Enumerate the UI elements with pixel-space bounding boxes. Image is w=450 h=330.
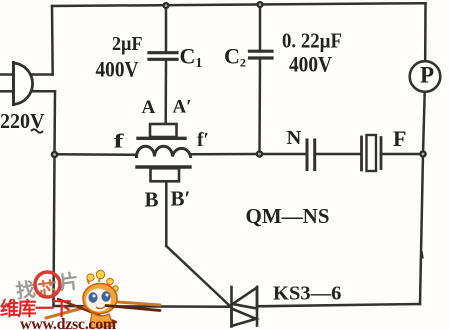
wire mid rail (C2 node to capacitor N) [260,153,307,156]
svg-text:220V: 220V [0,109,45,133]
svg-text:A: A [142,97,156,118]
wire right vertical lower (bottom corner up to mid node) [420,154,423,304]
capacitor C1 bottom lead (to node A) [164,60,167,124]
wire left vertical (plug neutral down to mid rail node) [53,91,56,154]
svg-text:0. 22µF: 0. 22µF [282,29,342,53]
svg-text:400V: 400V [96,57,139,82]
wire right vertical upper (meter P up to top rail) [424,3,427,61]
capacitor C1 [149,53,177,60]
wire bottom rail left segment [54,305,232,308]
wire bottom rail right segment [257,304,420,306]
wire gate diagonal (B lead to triac gate) [166,246,230,307]
svg-text:f: f [114,131,124,153]
junction node (C2 / mid rail) [256,150,264,158]
wire (igniter F to right vertical node) [382,153,423,156]
junction node (left vertical / mid rail) [51,151,59,159]
wire mid rail f'-side (sensor coil to C2 node) [190,153,260,156]
triac V (KS3-6) [232,287,258,327]
wire top rail [52,3,426,6]
svg-text:KS3—6: KS3—6 [273,283,341,305]
watermark text zhao xin pian [14,270,80,306]
svg-text:QM—NS: QM—NS [246,204,330,228]
svg-text:2µF: 2µF [112,34,143,55]
svg-text:B′: B′ [171,187,191,211]
svg-text:www.dzsc.com: www.dzsc.com [20,316,117,330]
arrow on right vertical wire [421,251,423,259]
tilde under 220V [31,129,43,132]
wire mid rail f-side (left node to sensor coil) [55,153,137,156]
watermark [0,270,160,330]
wire plug lower lead [32,90,55,93]
svg-text:N: N [287,127,302,149]
junction node (top rail / C1) [162,2,169,9]
capacitor C2 bottom lead [258,59,261,154]
capacitor N [307,140,315,170]
gas sensor QM-NS bottom electrode B-B' [137,167,190,181]
watermark mascot [83,270,160,328]
gas sensor QM-NS top electrode A-A' [138,124,185,138]
wire (capacitor N to igniter F) [316,153,361,156]
junction node (top rail / C2) [256,1,263,8]
svg-text:F: F [393,126,407,151]
capacitor C2 top lead [259,5,262,50]
svg-text:f′: f′ [197,129,209,151]
wire left vertical lower (mid rail node down to bottom rail) [54,155,55,307]
junction node (mid rail / right vertical) [419,150,427,158]
meter P [410,61,441,92]
watermark red ring [35,272,60,297]
wire sensor B lead down [165,182,168,247]
plug P1 (220V mains plug) [0,63,33,105]
watermark sticks [46,299,160,322]
capacitor C2 [250,51,273,58]
wire plug upper lead [32,73,53,76]
capacitor C1 top lead [165,5,168,51]
svg-text:P: P [420,63,434,88]
wire right vertical middle (mid node up to meter P) [423,92,425,154]
svg-text:400V: 400V [289,52,332,77]
wire left vertical upper (plug hot to top rail) [51,6,54,75]
svg-text:B: B [145,188,159,212]
gas sensor QM-NS heater coil f-f' [137,146,191,156]
svg-text:A′: A′ [173,97,192,118]
piezo igniter F [362,135,382,171]
